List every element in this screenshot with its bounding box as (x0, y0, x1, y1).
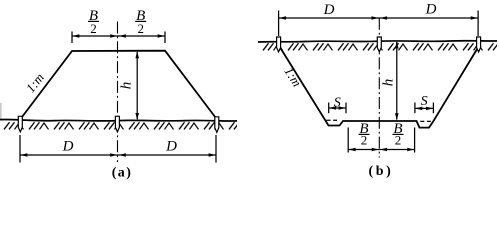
peg right (b) (477, 37, 481, 52)
svg-text:2: 2 (90, 21, 97, 36)
dimension S right (b) (415, 94, 434, 113)
svg-text:(b): (b) (369, 164, 394, 179)
peg center (a) (115, 116, 119, 132)
svg-text:D: D (323, 2, 335, 18)
svg-text:S: S (334, 96, 341, 111)
ground hatching (a) (0, 121, 237, 131)
svg-text:S: S (421, 94, 428, 109)
dimension B/2 right (a) (118, 8, 165, 43)
ditch dashed top left (b) (327, 119, 338, 121)
svg-text:1:m: 1:m (23, 70, 47, 95)
centerline (b) (378, 18, 380, 158)
peg left (b) (277, 37, 281, 52)
svg-text:2: 2 (395, 133, 402, 148)
dimension D right (b) (379, 2, 478, 37)
dimension B/2 left (b) (348, 121, 379, 153)
svg-text:h: h (380, 79, 396, 87)
svg-text:h: h (119, 82, 135, 90)
peg left (a) (18, 116, 22, 132)
centerline (a) (117, 22, 119, 163)
dimension D left (a) (20, 135, 118, 163)
dimension S left (b) (329, 96, 346, 114)
slope label 1:m (a) (23, 70, 47, 95)
svg-text:2: 2 (361, 133, 368, 148)
scan smudge at left edge (0, 103, 2, 120)
svg-text:1:m: 1:m (281, 64, 304, 89)
caption (a) (112, 166, 133, 181)
svg-text:2: 2 (137, 21, 144, 36)
dimension h (b) (380, 42, 398, 121)
svg-text:D: D (62, 139, 74, 155)
peg right (a) (215, 117, 219, 133)
ground line (a) (0, 119, 237, 121)
svg-text:D: D (165, 139, 177, 155)
caption (b) (369, 164, 394, 179)
dimension h (a) (119, 51, 140, 120)
ditch dashed top right (b) (420, 120, 431, 122)
cutting outline with side ditches (b) (279, 46, 478, 128)
slope label 1:m (b) (281, 64, 304, 89)
dimension B/2 left (a) (72, 8, 118, 43)
embankment outline (a) (22, 51, 216, 118)
ground hatching (b) (259, 42, 498, 52)
ground line (b) (258, 41, 497, 42)
dimension D right (a) (118, 135, 216, 163)
svg-text:D: D (425, 2, 437, 18)
peg center (b) (377, 37, 381, 52)
dimension D left (b) (279, 2, 380, 36)
dimension B/2 right (b) (379, 121, 414, 153)
svg-text:(a): (a) (112, 166, 133, 181)
